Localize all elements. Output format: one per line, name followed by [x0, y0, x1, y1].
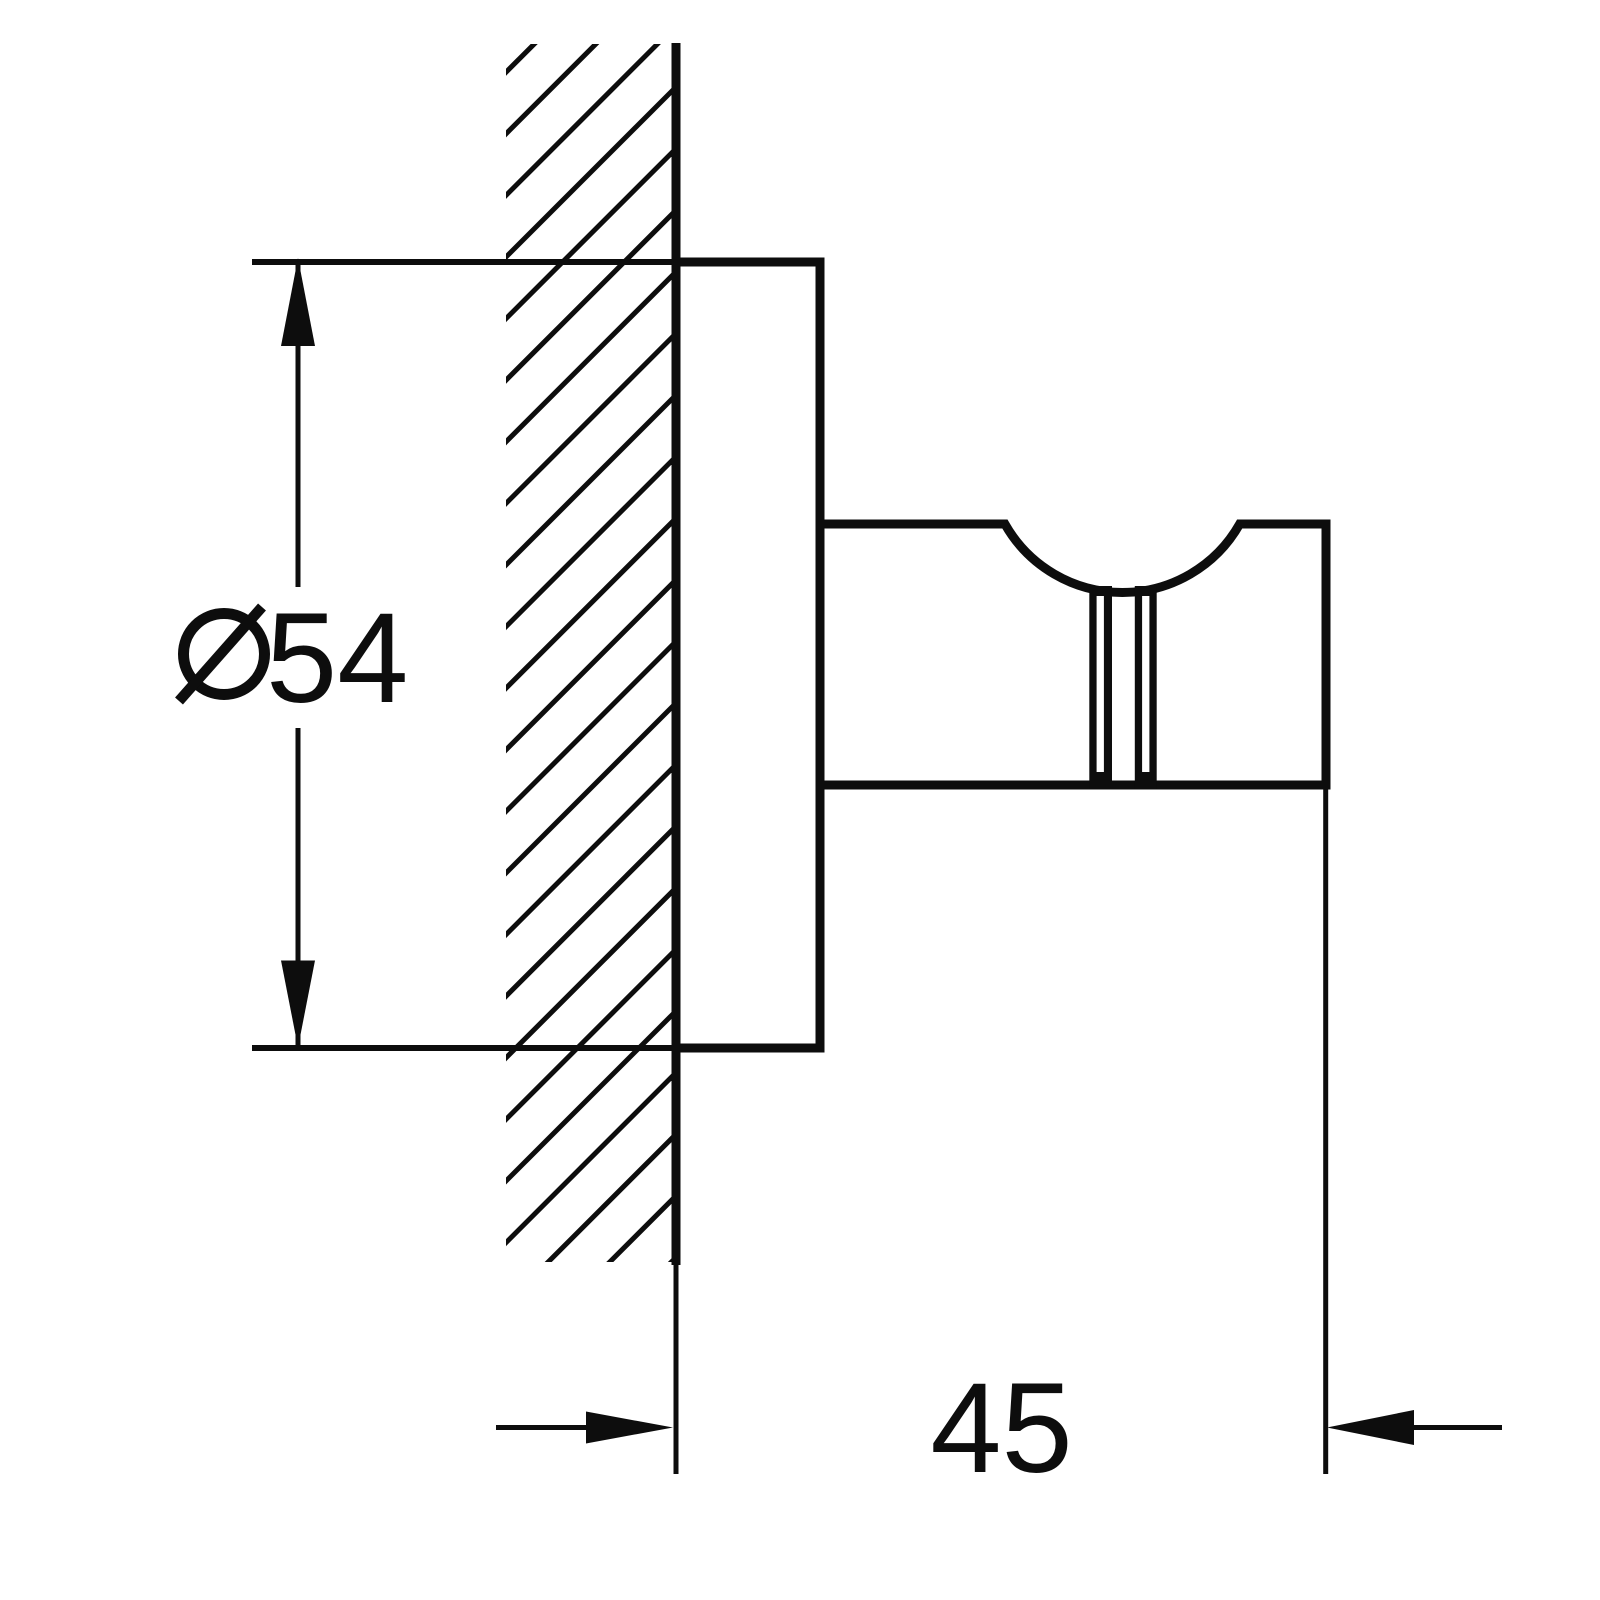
- Ø54 arrow up: [281, 258, 315, 346]
- groove pair B body: [1135, 586, 1157, 790]
- extension line below wall (left extension of 45 dim): [674, 1265, 679, 1474]
- mounting plate (wall flange): [676, 262, 820, 1048]
- Ø54 dimension line lower segment: [296, 728, 301, 1048]
- Ø54 label diameter symbol circle: [184, 614, 265, 695]
- svg-text:45: 45: [930, 1357, 1072, 1500]
- Ø54 arrow down: [281, 961, 315, 1048]
- groove pair A body: [1089, 586, 1112, 790]
- 45 right arrow tail: [1412, 1425, 1502, 1430]
- groove pair B slot: [1142, 596, 1149, 772]
- hook body outline with concave cradle: [816, 524, 1326, 785]
- svg-text:54: 54: [266, 587, 408, 730]
- wall face line: [672, 43, 681, 1265]
- 45 left arrow tail: [496, 1425, 600, 1430]
- extension line bottom of Ø54: [252, 1045, 676, 1051]
- Ø54 dimension line upper segment: [296, 262, 301, 587]
- groove pair A slot: [1097, 596, 1104, 772]
- 45 left arrowhead: [586, 1412, 673, 1444]
- extension line top of Ø54: [252, 259, 676, 265]
- 45 dimension right extension line: [1323, 789, 1328, 1474]
- 45 right arrowhead: [1327, 1410, 1414, 1445]
- wall section hatching: [0, 30, 1600, 1300]
- Ø54 label diameter symbol slash: [179, 607, 262, 701]
